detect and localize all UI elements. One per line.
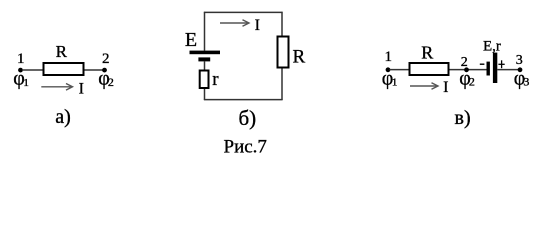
svg-text:в): в) [455, 107, 471, 129]
wire node1 to R (circuit v) [390, 69, 410, 71]
node 1 dot (circuit v) [386, 67, 391, 72]
resistor R box (circuit b) [278, 37, 289, 68]
current arrow (circuit a) [41, 84, 72, 91]
loop right wire upper segment (circuit b) [281, 12, 283, 36]
svg-text:I: I [443, 79, 448, 96]
loop top wire (circuit b) [204, 11, 283, 13]
svg-text:3: 3 [516, 53, 523, 68]
node 3 dot (circuit v) [518, 67, 523, 72]
node 2 dot (circuit v) [464, 67, 469, 72]
current arrow (circuit v) [410, 83, 438, 90]
wire r to bottom (circuit b) [204, 89, 206, 100]
resistor R box (circuit a) [44, 63, 84, 75]
svg-text:E: E [185, 29, 197, 51]
wire battery to node3 (circuit v) [497, 69, 519, 71]
battery long plate (circuit v) [493, 53, 497, 83]
internal resistance r box (circuit b) [200, 71, 209, 89]
svg-text:1: 1 [17, 51, 25, 67]
wire node1 to R1 (circuit a) [22, 69, 43, 71]
loop left wire upper segment (circuit b) [204, 12, 206, 51]
svg-text:R: R [293, 47, 306, 68]
svg-text:I: I [79, 80, 84, 97]
battery E short plate (circuit b) [198, 57, 210, 61]
loop right wire lower segment (circuit b) [281, 69, 283, 101]
loop bottom wire (circuit b) [204, 99, 283, 101]
wire R to battery (circuit v) [450, 69, 487, 71]
battery short plate (circuit v) [487, 62, 490, 76]
svg-text:R: R [56, 42, 68, 61]
node 1 dot (circuit a) [18, 68, 23, 73]
svg-text:б): б) [239, 106, 257, 130]
battery plus sign (circuit v) [498, 60, 504, 68]
svg-text:R: R [421, 43, 433, 63]
current arrow (circuit b) [220, 20, 249, 27]
svg-text:1: 1 [385, 49, 393, 65]
svg-text:E,r: E,r [483, 38, 501, 54]
wire R to node2 (circuit a) [85, 69, 105, 71]
battery minus sign (circuit v) [480, 63, 485, 65]
svg-text:а): а) [55, 106, 71, 128]
svg-text:Рис.7: Рис.7 [224, 137, 267, 158]
resistor R box (circuit v) [410, 63, 449, 75]
svg-text:I: I [255, 17, 260, 34]
node 2 dot (circuit a) [102, 68, 107, 73]
svg-text:2: 2 [102, 51, 110, 67]
wire battery to r (circuit b) [204, 61, 206, 69]
svg-text:r: r [212, 69, 219, 90]
battery E long plate (circuit b) [190, 51, 221, 55]
